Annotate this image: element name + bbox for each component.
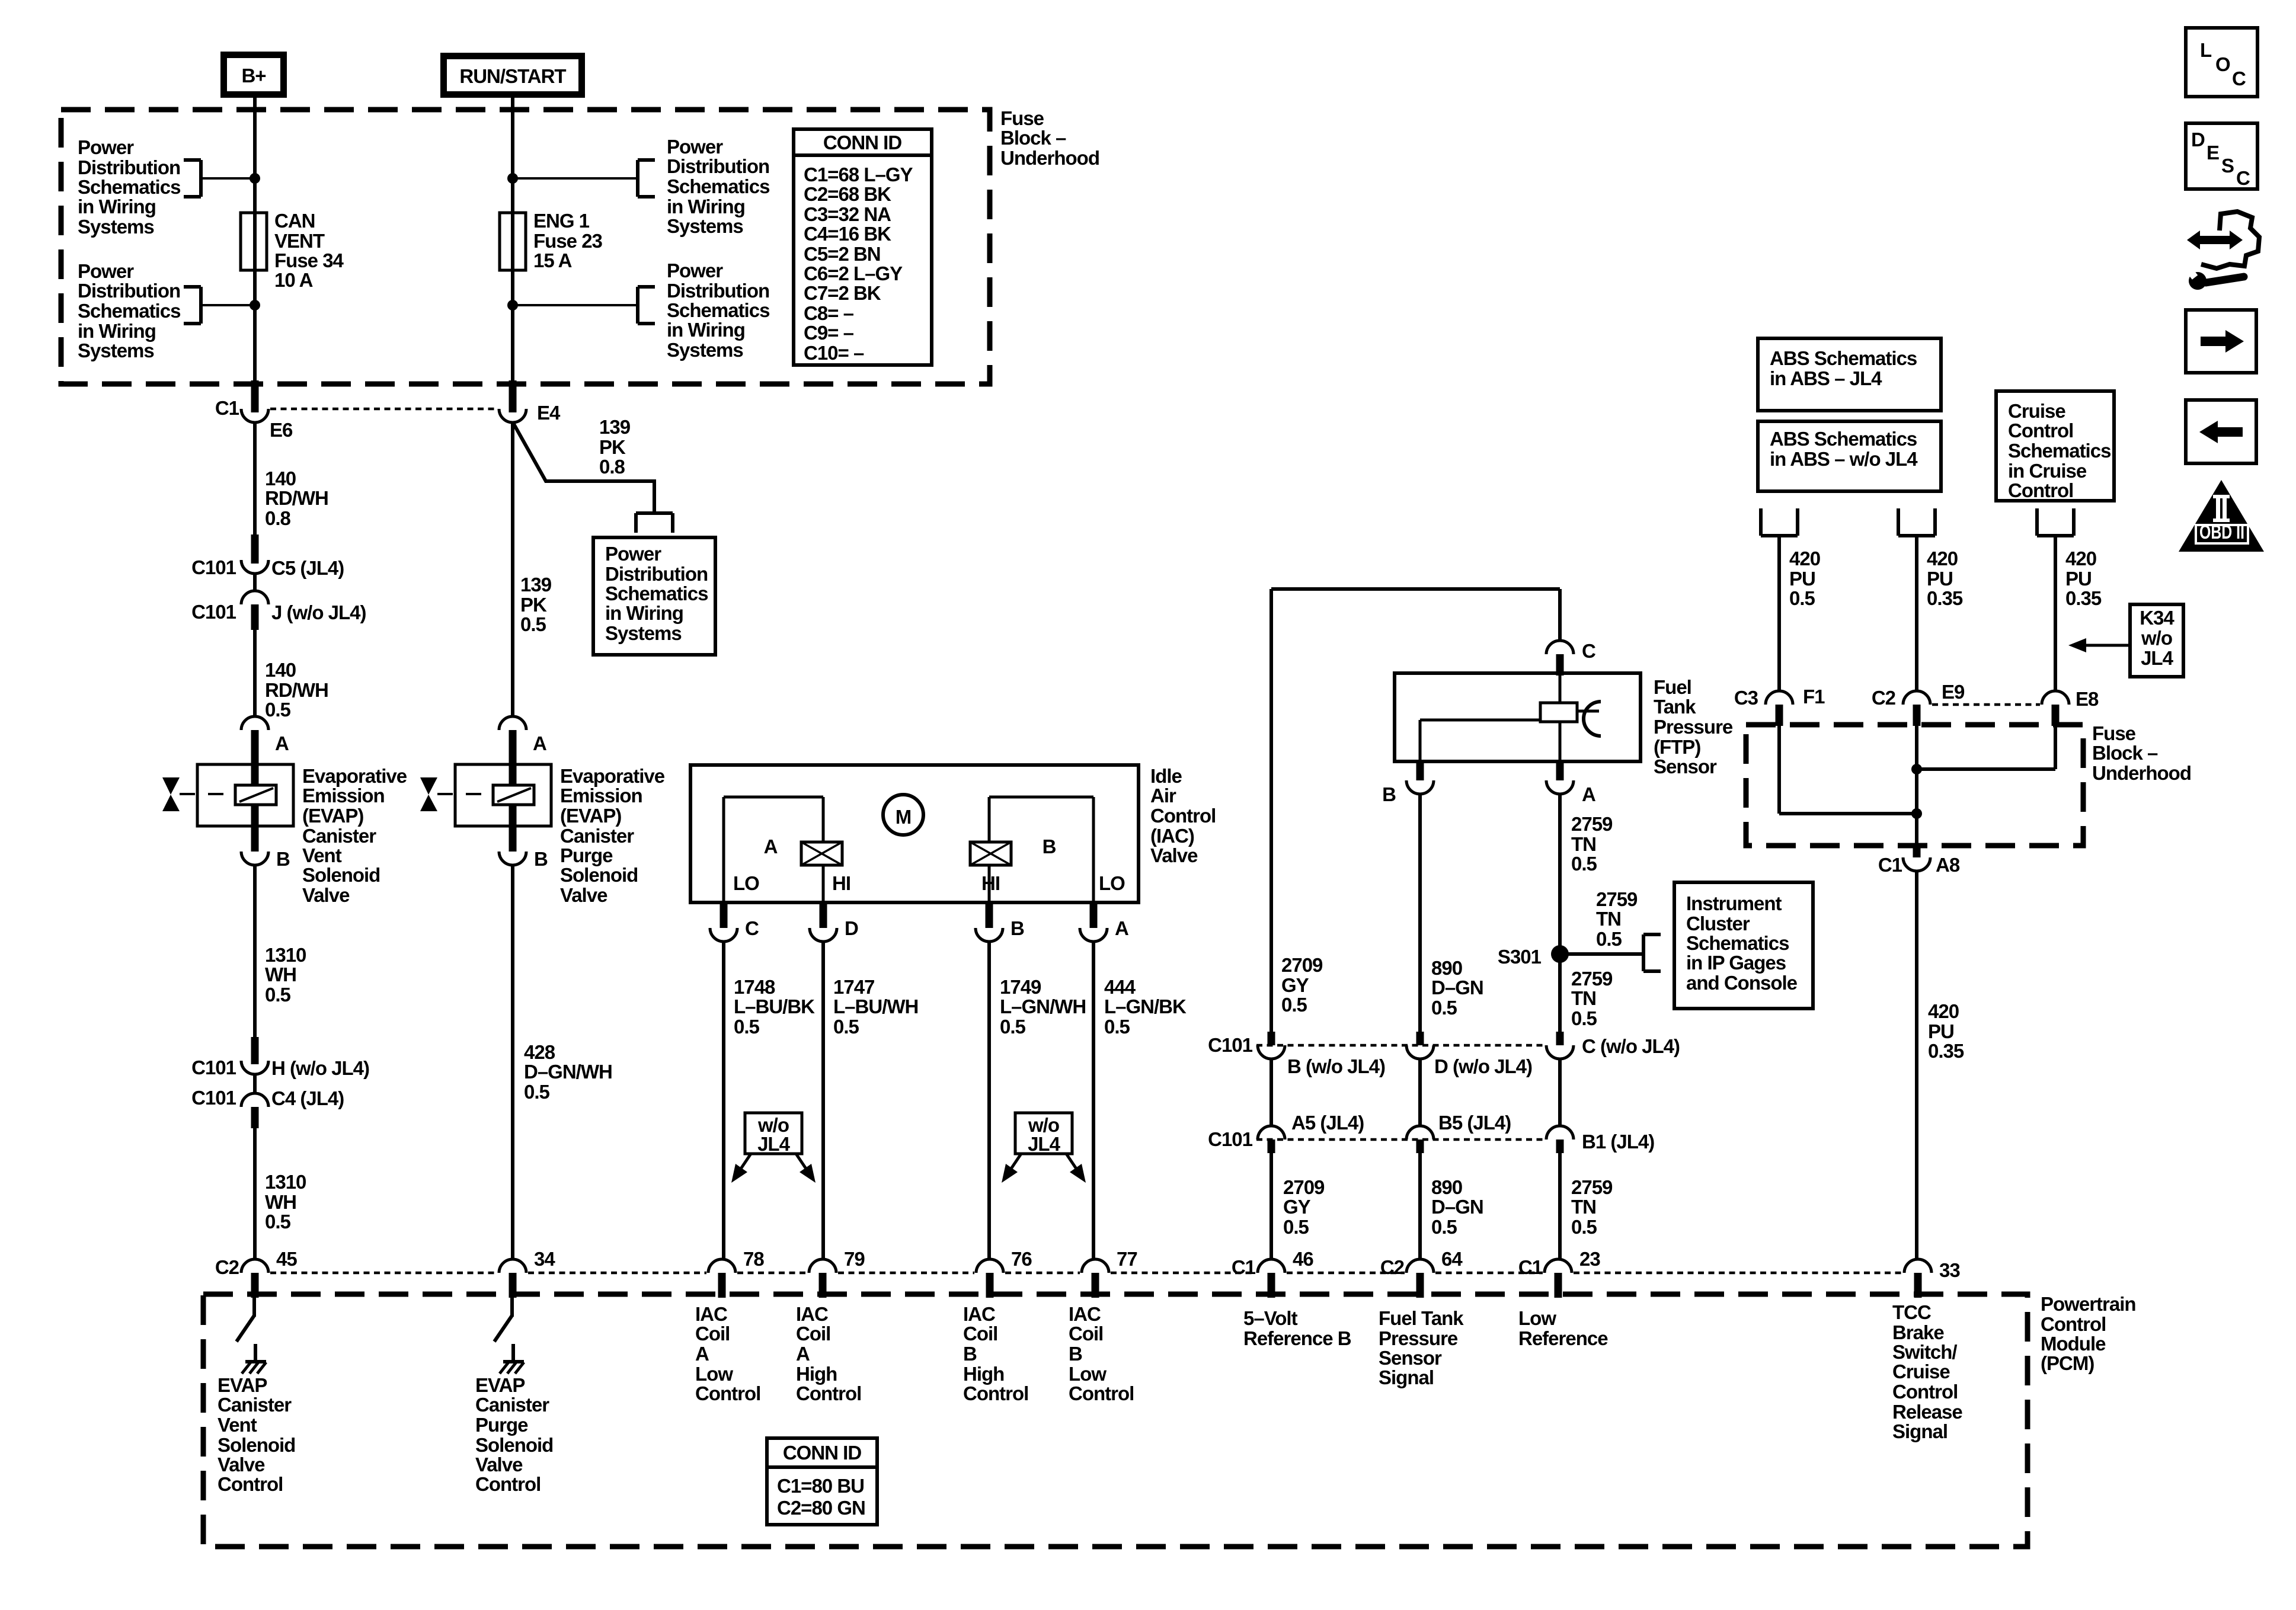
label B5 (JL4) <box>1438 1112 1511 1134</box>
svg-text:E6: E6 <box>270 419 293 441</box>
solenoid EVAP canister purge valve <box>455 730 551 852</box>
label 2759 TN 0.5 below S301 <box>1571 968 1613 1029</box>
svg-text:0.5: 0.5 <box>1431 997 1457 1019</box>
connector C101 pin C5 <box>241 534 268 574</box>
svg-text:Block –: Block – <box>2092 742 2158 764</box>
svg-text:JL4: JL4 <box>1028 1133 1061 1155</box>
svg-text:ENG 1: ENG 1 <box>533 210 590 232</box>
connector pin B (IAC) <box>976 902 1024 942</box>
svg-text:Systems: Systems <box>78 340 154 361</box>
bracket to instrument cluster <box>1643 934 1661 971</box>
svg-text:M: M <box>896 806 912 828</box>
bracket to power distribution left 2 <box>184 287 201 324</box>
svg-text:Schematics: Schematics <box>667 299 769 321</box>
svg-text:C101: C101 <box>191 1087 236 1109</box>
svg-text:2759: 2759 <box>1571 1176 1613 1198</box>
svg-text:E8: E8 <box>2076 688 2099 710</box>
svg-text:78: 78 <box>743 1248 764 1270</box>
FTP sensor element <box>1420 676 1601 761</box>
power symbol B+ <box>220 52 287 98</box>
connector pin B (FTP) <box>1382 761 1434 805</box>
svg-text:Sensor: Sensor <box>1379 1347 1442 1369</box>
label LO (coil B) <box>1099 872 1125 894</box>
label coil B <box>1043 836 1056 857</box>
wire 420 PU 0.35 TCC <box>1915 871 1918 1259</box>
label C101 row2 <box>1208 1128 1253 1150</box>
wire dotted connector row C1 <box>270 408 497 411</box>
svg-text:0.5: 0.5 <box>1281 994 1307 1016</box>
svg-text:0.5: 0.5 <box>1283 1216 1309 1238</box>
svg-text:RUN/START: RUN/START <box>459 65 566 87</box>
label evaporative emission vent valve <box>302 765 407 906</box>
connector C101 pin B w/o JL4 <box>1258 1032 1285 1059</box>
connector C101 pin H <box>241 1037 268 1074</box>
fork under cruise box <box>2037 508 2074 536</box>
label A8 <box>1936 854 1960 876</box>
svg-text:Low: Low <box>1518 1307 1556 1329</box>
svg-text:79: 79 <box>844 1248 865 1270</box>
svg-text:C4=16 BK: C4=16 BK <box>804 223 891 245</box>
label evaporative emission purge valve <box>560 765 665 906</box>
svg-text:B: B <box>276 848 290 870</box>
svg-text:WH: WH <box>265 1191 296 1213</box>
fork to power distribution box <box>636 513 673 533</box>
svg-text:Pressure: Pressure <box>1654 716 1733 738</box>
svg-text:Coil: Coil <box>695 1323 730 1345</box>
svg-text:IAC: IAC <box>796 1303 828 1325</box>
svg-text:(EVAP): (EVAP) <box>302 805 363 827</box>
connector pin A (FTP) <box>1546 761 1595 805</box>
svg-text:(FTP): (FTP) <box>1654 736 1700 758</box>
svg-text:JL4: JL4 <box>2141 647 2174 669</box>
svg-text:LO: LO <box>1099 872 1125 894</box>
svg-text:5–Volt: 5–Volt <box>1243 1307 1298 1329</box>
svg-text:PK: PK <box>599 436 626 458</box>
svg-text:140: 140 <box>265 468 296 489</box>
label D (w/o JL4) <box>1434 1055 1532 1077</box>
svg-text:B: B <box>1011 917 1024 939</box>
svg-text:OBD II: OBD II <box>2199 521 2244 543</box>
svg-text:(EVAP): (EVAP) <box>560 805 621 827</box>
label C101 (J) <box>191 601 236 623</box>
svg-text:C2=68 BK: C2=68 BK <box>804 183 891 205</box>
svg-text:C: C <box>745 917 759 939</box>
svg-text:0.5: 0.5 <box>1596 928 1622 950</box>
svg-text:2709: 2709 <box>1283 1176 1325 1198</box>
connector C101 pin B5 JL4 <box>1406 1126 1434 1153</box>
svg-text:Block –: Block – <box>1000 127 1066 149</box>
connector PCM pin 64 <box>1380 1248 1463 1298</box>
svg-text:E4: E4 <box>537 402 561 424</box>
svg-text:Coil: Coil <box>963 1323 997 1345</box>
connector PCM pin 33 <box>1904 1259 1960 1298</box>
svg-text:B: B <box>534 848 548 870</box>
svg-text:CONN ID: CONN ID <box>823 132 902 153</box>
box K34 w/o JL4 <box>2130 604 2183 677</box>
label coil A <box>764 836 778 857</box>
icon wiring repair (arrow and wrench) <box>2186 212 2259 290</box>
conn id table top <box>794 129 932 365</box>
svg-text:Switch/: Switch/ <box>1892 1341 1957 1363</box>
svg-text:Idle: Idle <box>1150 765 1182 787</box>
svg-text:C101: C101 <box>1208 1128 1253 1150</box>
svg-text:A: A <box>1115 917 1128 939</box>
svg-text:Fuel Tank: Fuel Tank <box>1379 1307 1464 1329</box>
svg-text:Evaporative: Evaporative <box>302 765 407 787</box>
svg-text:D–GN/WH: D–GN/WH <box>524 1061 612 1083</box>
svg-text:D–GN: D–GN <box>1431 977 1483 998</box>
svg-text:1748: 1748 <box>734 976 775 998</box>
svg-text:PU: PU <box>1789 568 1815 590</box>
wire 2759 TN upper <box>1558 794 1562 954</box>
svg-text:C101: C101 <box>191 601 236 623</box>
label 1749 L-GN/WH 0.5 <box>1000 976 1086 1038</box>
wire 890 D-GN lower <box>1418 1153 1422 1259</box>
svg-text:Brake: Brake <box>1892 1321 1944 1343</box>
svg-text:Systems: Systems <box>667 339 743 361</box>
svg-text:B: B <box>1069 1343 1082 1365</box>
svg-text:Valve: Valve <box>302 884 350 906</box>
svg-text:0.35: 0.35 <box>1928 1040 1964 1062</box>
connector PCM pin 34 <box>499 1248 555 1298</box>
svg-text:Solenoid: Solenoid <box>560 864 638 886</box>
label LO (coil A) <box>733 872 759 894</box>
svg-text:HI: HI <box>832 872 850 894</box>
svg-text:C1: C1 <box>1518 1256 1543 1278</box>
svg-text:C2: C2 <box>215 1256 239 1278</box>
connector PCM pin 23 <box>1518 1248 1601 1298</box>
svg-text:Valve: Valve <box>218 1454 265 1475</box>
box ABS schematics JL4 <box>1758 338 1941 411</box>
label 420 PU 0.35 (E9) <box>1927 548 1963 609</box>
svg-text:0.5: 0.5 <box>520 613 546 635</box>
label 2709 GY 0.5 lower <box>1283 1176 1325 1238</box>
svg-text:Purge: Purge <box>475 1414 528 1436</box>
wire FTP C drop <box>1558 589 1562 641</box>
ground (vent control) <box>242 1362 266 1374</box>
svg-text:C10= –: C10= – <box>804 342 864 364</box>
svg-text:L–GN/BK: L–GN/BK <box>1104 996 1187 1017</box>
svg-text:Low: Low <box>695 1363 733 1385</box>
connector C101 pin J <box>241 591 268 630</box>
svg-text:Control: Control <box>1069 1382 1134 1404</box>
svg-text:139: 139 <box>520 574 552 596</box>
svg-text:15 A: 15 A <box>533 249 572 271</box>
svg-text:C101: C101 <box>191 1057 236 1078</box>
svg-text:Power: Power <box>667 260 723 281</box>
svg-text:Fuel: Fuel <box>1654 676 1691 698</box>
svg-text:PU: PU <box>1928 1020 1954 1042</box>
svg-text:EVAP: EVAP <box>218 1374 267 1396</box>
wire 890 D-GN upper <box>1418 794 1422 1032</box>
svg-text:Fuse 23: Fuse 23 <box>533 230 603 252</box>
wire dotted PCM connector row <box>270 1272 1902 1275</box>
svg-text:A: A <box>1582 783 1595 805</box>
svg-text:L–BU/BK: L–BU/BK <box>734 996 815 1017</box>
svg-text:Schematics: Schematics <box>78 176 180 198</box>
svg-text:C: C <box>2236 167 2250 189</box>
svg-text:C4 (JL4): C4 (JL4) <box>271 1087 344 1109</box>
label H (w/o JL4) <box>271 1057 369 1079</box>
svg-text:C6=2 L–GY: C6=2 L–GY <box>804 263 903 284</box>
label 890 D-GN 0.5 lower <box>1431 1176 1483 1238</box>
label fuse block underhood right <box>2092 722 2191 784</box>
connector PCM pin 78 <box>708 1248 764 1298</box>
wire IAC coil A low <box>722 942 725 1259</box>
svg-text:Cruise: Cruise <box>2008 400 2065 422</box>
svg-text:1749: 1749 <box>1000 976 1041 998</box>
svg-text:High: High <box>963 1363 1004 1385</box>
label 1748 L-BU/BK 0.5 <box>734 976 815 1038</box>
connector C101 pin C w/o JL4 <box>1546 1032 1574 1059</box>
connector pin E4 <box>499 380 526 422</box>
icon LOC box <box>2186 28 2257 97</box>
wire 5V ref horizontal <box>1271 587 1560 591</box>
svg-text:A: A <box>796 1343 810 1365</box>
svg-text:Control: Control <box>2008 479 2073 501</box>
svg-text:JL4: JL4 <box>757 1133 791 1155</box>
label B1 (JL4) <box>1582 1131 1654 1153</box>
arrow w/o JL4 A-right <box>796 1154 816 1183</box>
connector pin C (IAC) <box>710 902 759 942</box>
icon OBD II triangle <box>2179 480 2264 552</box>
svg-text:Distribution: Distribution <box>605 563 708 585</box>
svg-text:C3=32 NA: C3=32 NA <box>804 203 891 225</box>
wire dotted C101 row 2 <box>1256 1138 1544 1141</box>
svg-text:34: 34 <box>534 1248 555 1270</box>
label C4 (JL4) <box>271 1087 344 1109</box>
svg-text:890: 890 <box>1431 957 1462 979</box>
valve symbol (vent) <box>162 777 235 811</box>
svg-text:w/o: w/o <box>2141 627 2172 649</box>
svg-text:TN: TN <box>1571 833 1596 855</box>
svg-text:139: 139 <box>599 416 631 438</box>
fork under ABS w/o JL4 <box>1898 508 1935 536</box>
wire 428 D-GN/WH 0.5 <box>511 865 514 1259</box>
svg-text:Solenoid: Solenoid <box>475 1434 553 1456</box>
svg-text:C2: C2 <box>1380 1256 1405 1278</box>
svg-text:Schematics: Schematics <box>605 582 708 604</box>
svg-text:and Console: and Console <box>1686 972 1798 994</box>
svg-text:Evaporative: Evaporative <box>560 765 665 787</box>
svg-text:in Wiring: in Wiring <box>667 196 745 217</box>
svg-text:A: A <box>695 1343 709 1365</box>
label C5 (JL4) <box>271 557 344 579</box>
label A5 (JL4) <box>1291 1112 1364 1134</box>
wire stub branch right 2 <box>513 304 638 306</box>
svg-text:EVAP: EVAP <box>475 1374 525 1396</box>
junction node B+ lower <box>250 300 260 311</box>
svg-text:Signal: Signal <box>1379 1366 1434 1388</box>
label EVAP canister purge solenoid valve control <box>475 1374 553 1495</box>
wire between C101 halves 2 <box>253 1074 257 1093</box>
svg-text:Underhood: Underhood <box>2092 762 2191 784</box>
svg-text:L: L <box>2200 39 2212 61</box>
svg-text:Cruise: Cruise <box>1892 1361 1950 1382</box>
icon DESC box <box>2186 123 2257 189</box>
svg-text:0.5: 0.5 <box>734 1016 760 1038</box>
connector pin B (purge valve) <box>499 848 548 870</box>
label power distribution schematics right 1 <box>667 136 769 237</box>
connector PCM pin 76 <box>976 1248 1032 1298</box>
svg-text:GY: GY <box>1281 974 1309 996</box>
svg-text:Pressure: Pressure <box>1379 1327 1458 1349</box>
label HI (coil A) <box>832 872 850 894</box>
label C101 (C4) <box>191 1087 236 1109</box>
connector PCM pin 79 <box>809 1248 865 1298</box>
wire IAC coil A high <box>821 942 825 1259</box>
wire ENG1 vertical <box>511 98 514 395</box>
fuse CAN VENT Fuse 34 <box>241 213 267 270</box>
wire 140 RD/WH 0.8 <box>253 422 257 546</box>
svg-text:0.5: 0.5 <box>1104 1016 1130 1038</box>
svg-text:Fuse: Fuse <box>2092 722 2136 744</box>
svg-text:0.5: 0.5 <box>265 1211 291 1233</box>
svg-text:C2=80 GN: C2=80 GN <box>777 1497 865 1519</box>
callout w/o JL4 (coil B) <box>1015 1113 1072 1155</box>
svg-text:Purge: Purge <box>560 844 613 866</box>
wire 420 PU 0.35 (E8) <box>2054 536 2057 691</box>
svg-text:Canister: Canister <box>302 825 376 847</box>
connector pin A (IAC) <box>1080 902 1128 942</box>
driver transistor (purge control) <box>494 1298 513 1361</box>
wire 140 RD/WH 0.5 <box>253 630 257 716</box>
svg-text:1310: 1310 <box>265 944 306 966</box>
box instrument cluster schematics <box>1674 882 1813 1009</box>
svg-text:F1: F1 <box>1803 686 1825 708</box>
svg-text:C101: C101 <box>191 556 236 578</box>
label C3 <box>1734 687 1758 709</box>
svg-text:0.5: 0.5 <box>265 699 291 721</box>
svg-text:C: C <box>2232 68 2246 89</box>
svg-text:1310: 1310 <box>265 1171 306 1193</box>
label 139 PK 0.5 <box>520 574 552 635</box>
svg-text:C1: C1 <box>215 397 239 419</box>
label E8 <box>2076 688 2099 710</box>
svg-text:Power: Power <box>78 136 134 158</box>
svg-text:0.5: 0.5 <box>265 984 291 1006</box>
svg-text:CAN: CAN <box>274 210 315 232</box>
wire B+ vertical <box>253 98 257 395</box>
svg-text:0.5: 0.5 <box>524 1081 550 1103</box>
fuse block underhood box right <box>1746 725 2083 846</box>
box ABS schematics w/o JL4 <box>1758 421 1941 491</box>
fork under ABS JL4 <box>1761 508 1798 536</box>
svg-text:C7=2 BK: C7=2 BK <box>804 282 881 304</box>
conn id table bottom <box>767 1438 877 1525</box>
label 1310 WH 0.5 lower <box>265 1171 306 1233</box>
svg-text:A: A <box>764 836 778 857</box>
label C101 (C5) <box>191 556 236 578</box>
svg-text:420: 420 <box>1928 1000 1959 1022</box>
wire dotted C101 row 1 <box>1256 1044 1544 1047</box>
svg-text:L–BU/WH: L–BU/WH <box>833 996 918 1017</box>
label 2759 TN 0.5 lower <box>1571 1176 1613 1238</box>
svg-text:D–GN: D–GN <box>1431 1196 1483 1218</box>
svg-text:H (w/o JL4): H (w/o JL4) <box>271 1057 369 1079</box>
svg-text:Control: Control <box>796 1382 861 1404</box>
wire 420 PU 0.35 (E9) <box>1915 536 1918 691</box>
svg-text:Sensor: Sensor <box>1654 756 1717 777</box>
connector PCM pin 45 <box>215 1248 298 1298</box>
junction node ENG1 upper <box>507 173 518 184</box>
svg-text:140: 140 <box>265 659 296 681</box>
svg-text:C9= –: C9= – <box>804 322 854 344</box>
svg-text:C1: C1 <box>1232 1256 1256 1278</box>
svg-text:Instrument: Instrument <box>1686 892 1782 914</box>
svg-text:Canister: Canister <box>218 1394 292 1416</box>
svg-text:A8: A8 <box>1936 854 1960 876</box>
label C2 (E9) <box>1872 687 1896 709</box>
powertrain control module box <box>203 1294 2028 1547</box>
label fuel tank pressure sensor <box>1654 676 1733 777</box>
wire F1 internal <box>1779 726 1917 814</box>
ground (purge control) <box>500 1362 524 1374</box>
label 5-volt reference B <box>1243 1307 1351 1349</box>
svg-text:B: B <box>1382 783 1396 805</box>
label 140 RD/WH 0.5 <box>265 659 328 721</box>
svg-text:TN: TN <box>1571 1196 1596 1218</box>
svg-text:C5 (JL4): C5 (JL4) <box>271 557 344 579</box>
svg-text:Underhood: Underhood <box>1000 147 1099 169</box>
connector PCM pin 46 <box>1232 1248 1314 1298</box>
svg-text:Schematics: Schematics <box>78 300 180 322</box>
svg-text:B5 (JL4): B5 (JL4) <box>1438 1112 1511 1134</box>
svg-text:O: O <box>2215 53 2230 75</box>
svg-text:ABS Schematics: ABS Schematics <box>1770 428 1917 450</box>
svg-text:A: A <box>275 732 289 754</box>
svg-text:Systems: Systems <box>605 622 682 644</box>
connector pin C (FTP) <box>1546 640 1595 676</box>
svg-text:2759: 2759 <box>1571 813 1613 835</box>
svg-text:E9: E9 <box>1942 681 1965 703</box>
label power distribution schematics left 1 <box>78 136 180 238</box>
svg-text:C1: C1 <box>1878 854 1902 876</box>
svg-text:WH: WH <box>265 964 296 985</box>
junction node B+ upper <box>250 173 260 184</box>
label 890 D-GN 0.5 upper <box>1431 957 1483 1019</box>
svg-text:Control: Control <box>963 1382 1028 1404</box>
driver transistor (vent control) <box>236 1298 255 1361</box>
label TCC brake switch signal <box>1892 1301 1962 1442</box>
svg-text:Control: Control <box>218 1473 283 1495</box>
svg-text:PU: PU <box>2065 568 2092 590</box>
svg-text:0.35: 0.35 <box>2065 587 2102 609</box>
label power distribution schematics left 2 <box>78 260 180 361</box>
bracket to power distribution left 1 <box>184 160 201 197</box>
svg-text:76: 76 <box>1011 1248 1032 1270</box>
fuse ENG 1 Fuse 23 <box>500 213 526 270</box>
svg-text:23: 23 <box>1579 1248 1600 1270</box>
svg-text:in Wiring: in Wiring <box>667 319 745 341</box>
svg-text:0.5: 0.5 <box>1000 1016 1026 1038</box>
label HI (coil B) <box>981 872 1000 894</box>
svg-text:S: S <box>2221 155 2234 177</box>
svg-text:Systems: Systems <box>667 215 743 237</box>
svg-text:Distribution: Distribution <box>78 156 180 178</box>
svg-text:0.5: 0.5 <box>1571 853 1597 875</box>
svg-text:444: 444 <box>1104 976 1136 998</box>
svg-text:0.5: 0.5 <box>1431 1216 1457 1238</box>
svg-text:Emission: Emission <box>302 785 385 806</box>
svg-text:TCC: TCC <box>1892 1301 1931 1323</box>
bracket to power distribution right 2 <box>638 287 655 324</box>
wire stub branch right 1 <box>513 177 638 180</box>
label J (w/o JL4) <box>271 601 366 623</box>
label power distribution schematics right 2 <box>667 260 769 361</box>
svg-text:C3: C3 <box>1734 687 1758 709</box>
svg-text:High: High <box>796 1363 837 1385</box>
